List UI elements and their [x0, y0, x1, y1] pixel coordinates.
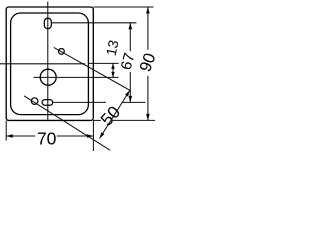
svg-text:70: 70	[37, 129, 57, 149]
arrow 50 lower	[100, 132, 105, 138]
dim line 13	[112, 63, 114, 77]
dim line 70 left part	[6, 135, 35, 137]
label 90	[136, 51, 159, 74]
arrow 90 top	[146, 7, 150, 14]
bottom edge ext (90 dim) left part	[93, 119, 101, 121]
plate inner rounded rect	[11, 13, 89, 115]
arrow 70 left	[6, 134, 13, 138]
dim line 70 right part	[57, 135, 94, 137]
arrow 13 bottom	[111, 72, 114, 78]
label 67	[118, 51, 139, 72]
dim line 50	[100, 90, 130, 138]
diagonal ext B through bottom knockout	[24, 96, 110, 150]
arrow 90 bottom	[146, 114, 150, 121]
svg-text:13: 13	[103, 38, 122, 57]
bottom slot ext line right part	[123, 101, 146, 103]
dim line 67 upper part	[129, 23, 131, 51]
plate outer rect	[6, 7, 93, 120]
arrow 70 right	[87, 134, 94, 138]
top edge ext (90 dim)	[93, 6, 153, 8]
bottom edge ext (90 dim) right part	[113, 119, 155, 121]
label 13	[103, 38, 122, 57]
dim line 90 upper part	[147, 7, 149, 50]
horizontal plate centerline left	[0, 63, 85, 65]
vertical centerline	[47, 2, 49, 121]
top slot	[44, 18, 51, 29]
bottom slot	[42, 100, 53, 106]
dim line 67 lower part	[129, 72, 131, 103]
diagonal ext A through top knockout	[54, 47, 130, 90]
arrow 67 bottom	[129, 96, 133, 103]
right ext 70	[92, 120, 94, 151]
center circle	[40, 69, 56, 85]
bottom slot ext line left part	[53, 101, 106, 103]
dim line 90 lower part	[147, 76, 149, 121]
label 50	[96, 102, 124, 130]
small circle A (top knockout)	[59, 49, 65, 55]
arrow 67 top	[129, 23, 133, 30]
horizontal plate centerline right (13 top ext)	[88, 62, 118, 64]
left ext 70	[5, 120, 7, 140]
arrow 13 top	[111, 63, 114, 69]
svg-text:90: 90	[136, 51, 159, 74]
top slot ext line	[51, 22, 136, 24]
small circle B (bottom knockout)	[31, 98, 38, 105]
circle centerline / 13 bottom ext	[34, 76, 119, 78]
arrow 50 upper	[125, 90, 130, 96]
